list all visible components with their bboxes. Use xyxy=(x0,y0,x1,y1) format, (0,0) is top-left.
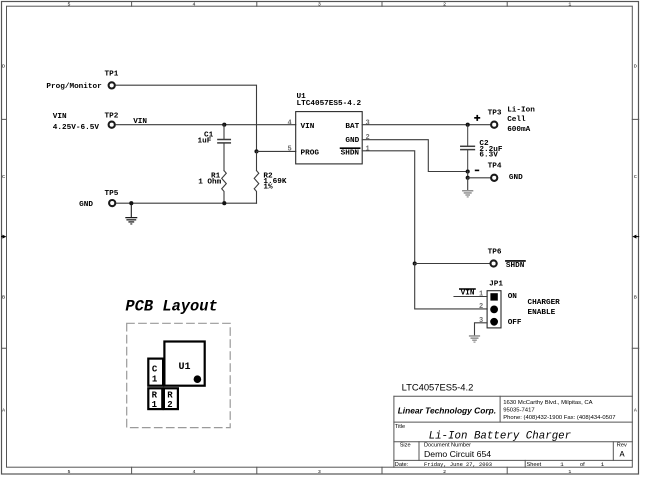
border column numbers top xyxy=(68,2,572,8)
PCB U1 footprint xyxy=(164,342,204,386)
svg-text:U1: U1 xyxy=(179,362,191,373)
svg-text:GND: GND xyxy=(509,174,523,182)
minus sign xyxy=(475,170,479,172)
resistor R2 xyxy=(254,171,259,204)
svg-text:TP3: TP3 xyxy=(488,110,502,118)
wire GND rail xyxy=(117,202,257,204)
svg-text:ON: ON xyxy=(508,293,518,301)
svg-text:VIN: VIN xyxy=(301,123,315,131)
svg-text:6.3V: 6.3V xyxy=(479,152,498,160)
svg-text:VIN: VIN xyxy=(461,290,475,298)
svg-text:Prog/Monitor: Prog/Monitor xyxy=(46,83,102,91)
svg-text:5: 5 xyxy=(68,469,71,475)
svg-text:A: A xyxy=(620,449,626,459)
wire junction to TP4 node xyxy=(467,172,469,178)
svg-text:5: 5 xyxy=(288,146,292,154)
svg-text:Document Number: Document Number xyxy=(424,443,471,449)
junction BAT/C2 xyxy=(466,123,470,127)
svg-text:1uF: 1uF xyxy=(198,137,212,145)
svg-text:OFF: OFF xyxy=(508,319,522,327)
svg-text:4.25V-6.5V: 4.25V-6.5V xyxy=(53,124,100,132)
svg-text:4: 4 xyxy=(193,2,196,8)
svg-text:2: 2 xyxy=(443,2,446,8)
svg-text:1: 1 xyxy=(366,146,370,154)
svg-text:95035-7417: 95035-7417 xyxy=(503,407,534,413)
svg-text:1 Ohm: 1 Ohm xyxy=(198,179,221,187)
wire BAT to TP3 xyxy=(362,124,490,126)
PCB R1 footprint xyxy=(148,388,162,409)
svg-text:Size: Size xyxy=(400,443,411,449)
svg-text:4: 4 xyxy=(288,119,292,127)
svg-text:1: 1 xyxy=(560,461,564,468)
JP1 pin2 round pad xyxy=(490,306,498,314)
capacitor C1 xyxy=(218,125,230,171)
svg-text:Cell: Cell xyxy=(507,116,526,124)
svg-text:JP1: JP1 xyxy=(489,281,503,289)
svg-text:B: B xyxy=(634,294,637,300)
svg-text:PCB Layout: PCB Layout xyxy=(125,297,217,315)
junction SHDN/TP6 xyxy=(413,261,417,265)
svg-text:1%: 1% xyxy=(263,184,273,192)
svg-text:VIN: VIN xyxy=(133,118,147,126)
JP1 pin1 square pad xyxy=(490,293,497,300)
junction PROG/R2 xyxy=(254,149,258,153)
svg-text:ENABLE: ENABLE xyxy=(528,309,556,317)
svg-text:600mA: 600mA xyxy=(507,126,530,134)
svg-text:B: B xyxy=(2,294,5,300)
svg-text:C: C xyxy=(152,365,158,375)
svg-text:2: 2 xyxy=(167,400,172,410)
svg-text:A: A xyxy=(2,408,5,414)
resistor R1 xyxy=(222,171,227,204)
svg-text:TP1: TP1 xyxy=(105,71,119,79)
svg-text:LTC4057ES5-4.2: LTC4057ES5-4.2 xyxy=(402,381,474,392)
testpoint TP6 xyxy=(491,260,497,266)
testpoint TP4 xyxy=(491,175,497,181)
border column numbers bottom xyxy=(68,469,572,475)
svg-text:C: C xyxy=(2,174,5,180)
border row ticks left xyxy=(2,119,7,348)
testpoint TP1 xyxy=(109,82,115,88)
border row ticks right xyxy=(632,119,638,348)
testpoint TP5 xyxy=(109,200,115,206)
svg-text:TP5: TP5 xyxy=(105,190,119,198)
svg-text:Li-Ion: Li-Ion xyxy=(507,107,535,115)
svg-text:R: R xyxy=(167,391,173,401)
svg-text:of: of xyxy=(580,462,585,468)
svg-text:C: C xyxy=(634,174,637,180)
svg-text:Demo Circuit 654: Demo Circuit 654 xyxy=(424,449,491,459)
svg-text:1: 1 xyxy=(479,291,483,299)
svg-text:Sheet: Sheet xyxy=(527,462,542,468)
svg-text:1: 1 xyxy=(152,375,158,385)
title block outline xyxy=(394,396,632,467)
svg-text:1: 1 xyxy=(601,461,605,468)
connector JP1 body xyxy=(487,291,501,328)
wire SHDN down to JP1 pin2 xyxy=(415,264,487,309)
ground symbol JP1 (gray) xyxy=(469,335,480,343)
svg-text:Linear Technology Corp.: Linear Technology Corp. xyxy=(398,405,496,415)
ground symbol below C2 xyxy=(462,178,473,198)
svg-text:VIN: VIN xyxy=(53,113,67,121)
svg-text:Date:: Date: xyxy=(395,462,409,468)
wire R2 top xyxy=(256,151,258,170)
wire U1 SHDN net xyxy=(362,151,415,264)
svg-text:TP4: TP4 xyxy=(488,162,502,170)
svg-text:R: R xyxy=(152,391,158,401)
svg-text:Friday, June 27, 2003: Friday, June 27, 2003 xyxy=(424,462,492,468)
JP1 pin3 round pad xyxy=(490,318,498,326)
wire TP1 to PROG vertical xyxy=(116,85,257,151)
svg-text:D: D xyxy=(2,63,5,69)
testpoint TP2 xyxy=(109,122,115,128)
junction TP4 tap xyxy=(466,176,470,180)
svg-text:3: 3 xyxy=(318,469,321,475)
junction ground tap xyxy=(129,201,133,205)
PCB layout dashed outline xyxy=(127,323,231,427)
border column ticks bottom xyxy=(132,467,508,474)
svg-text:4: 4 xyxy=(193,469,196,475)
svg-text:LTC4057ES5-4.2: LTC4057ES5-4.2 xyxy=(297,100,362,108)
svg-text:3: 3 xyxy=(479,317,483,325)
svg-text:1: 1 xyxy=(152,400,158,410)
border row letters left xyxy=(2,63,5,413)
svg-text:TP2: TP2 xyxy=(105,112,119,120)
svg-text:CHARGER: CHARGER xyxy=(528,299,561,307)
border column ticks top xyxy=(132,2,508,7)
capacitor C2 xyxy=(461,125,475,172)
svg-text:A: A xyxy=(634,408,637,414)
svg-text:Title: Title xyxy=(395,424,405,430)
svg-text:2: 2 xyxy=(366,134,370,142)
wire PROG to U1 xyxy=(257,150,296,152)
svg-text:SHDN: SHDN xyxy=(506,262,525,270)
svg-text:2: 2 xyxy=(443,469,446,475)
svg-text:1630 McCarthy Blvd., Milpitas,: 1630 McCarthy Blvd., Milpitas, CA xyxy=(503,400,592,406)
ground symbol left xyxy=(125,203,137,224)
svg-text:3: 3 xyxy=(318,2,321,8)
svg-text:BAT: BAT xyxy=(345,123,359,131)
junction R1/GND rail xyxy=(222,201,226,205)
border center arrow right xyxy=(636,236,639,238)
svg-text:D: D xyxy=(634,63,637,69)
svg-text:Li-Ion Battery Charger: Li-Ion Battery Charger xyxy=(429,431,572,443)
svg-text:Phone: (408)432-1900 Fax: (408: Phone: (408)432-1900 Fax: (408)434-0507 xyxy=(503,415,615,421)
wire JP1 pin3 to ground xyxy=(475,323,488,335)
svg-text:Rev: Rev xyxy=(617,443,627,449)
wire to TP6 xyxy=(415,263,490,265)
wire U1 GND return xyxy=(362,140,468,172)
svg-text:TP6: TP6 xyxy=(488,248,502,256)
svg-text:SHDN: SHDN xyxy=(341,149,360,157)
wire VIN rail TP2 to U1 xyxy=(116,124,296,126)
svg-text:3: 3 xyxy=(366,119,370,127)
junction C2/GND return xyxy=(466,169,470,173)
wire to TP4 xyxy=(468,177,491,179)
svg-text:PROG: PROG xyxy=(301,149,320,157)
svg-text:1: 1 xyxy=(568,2,571,8)
PCB R2 footprint xyxy=(164,388,178,409)
PCB U1 pin1 dot xyxy=(194,375,202,383)
svg-text:5: 5 xyxy=(68,2,71,8)
svg-text:1: 1 xyxy=(568,469,571,475)
PCB C1 footprint xyxy=(148,359,163,386)
plus sign xyxy=(474,115,480,121)
wire VIN stub to JP1 pin1 xyxy=(454,296,487,298)
svg-text:GND: GND xyxy=(79,201,93,209)
op-amp U1 body xyxy=(296,112,363,164)
border row letters right xyxy=(634,63,637,413)
svg-text:2: 2 xyxy=(479,303,483,311)
junction VIN/C1 xyxy=(222,123,226,127)
testpoint TP3 xyxy=(491,122,497,128)
border center arrow left xyxy=(2,236,4,238)
svg-text:GND: GND xyxy=(345,137,359,145)
